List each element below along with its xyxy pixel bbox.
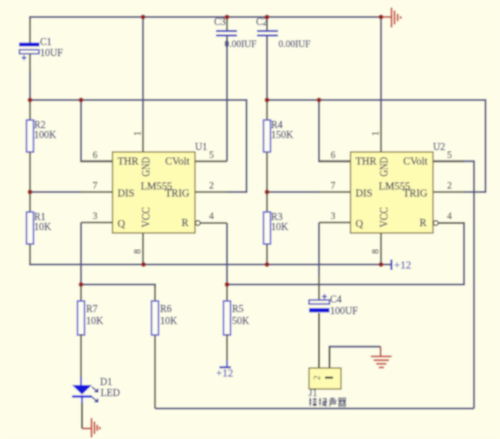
svg-text:7: 7 xyxy=(93,182,98,192)
svg-text:6: 6 xyxy=(93,151,98,161)
svg-text:J1: J1 xyxy=(309,388,318,399)
ground power style top right xyxy=(381,8,401,28)
junction R4 / R3 / DIS2 node xyxy=(265,190,270,195)
junction C2 / top rail xyxy=(265,15,270,20)
resistor R3 xyxy=(264,192,271,265)
svg-text:THR: THR xyxy=(118,157,139,168)
svg-text:VCC: VCC xyxy=(379,207,391,228)
wire THR2 branch xyxy=(319,100,350,161)
wire R6 lead lower xyxy=(154,335,156,409)
svg-text:3: 3 xyxy=(93,212,98,222)
svg-text:C4: C4 xyxy=(330,295,342,306)
wire C2 to node xyxy=(266,37,268,101)
svg-text:4: 4 xyxy=(209,212,214,222)
svg-text:8: 8 xyxy=(372,249,382,254)
op-amp U2 LM555 xyxy=(351,152,434,233)
svg-text:GND: GND xyxy=(379,157,391,177)
svg-text:C3: C3 xyxy=(214,17,226,28)
junction THR1 branch xyxy=(79,98,84,103)
svg-text:D1: D1 xyxy=(100,377,112,388)
junction R5 / reset rail xyxy=(225,282,230,287)
pin 6 U1 xyxy=(81,151,113,161)
pin 7 U1 xyxy=(81,182,113,192)
svg-text:THR: THR xyxy=(356,157,377,168)
wire Q1 node to R6 xyxy=(81,285,155,289)
svg-text:R7: R7 xyxy=(86,304,98,315)
junction U1 pin1 / top rail xyxy=(141,15,146,20)
svg-text:50K: 50K xyxy=(232,316,250,327)
junction R2 / R1 / DIS1 node xyxy=(28,190,33,195)
capacitor C1 xyxy=(19,19,40,72)
svg-text:8: 8 xyxy=(134,249,144,254)
svg-text:TRIG: TRIG xyxy=(403,189,428,200)
pin 2 U2 xyxy=(433,182,464,192)
junction Q1 output node xyxy=(79,282,84,287)
svg-text:CVolt: CVolt xyxy=(403,157,427,168)
resistor R5 xyxy=(224,285,231,361)
svg-text:R: R xyxy=(181,218,188,229)
svg-text:1: 1 xyxy=(372,131,382,136)
svg-text:6: 6 xyxy=(331,151,336,161)
pin 8 U1 xyxy=(134,233,144,265)
svg-text:1: 1 xyxy=(134,131,144,136)
svg-text:5: 5 xyxy=(209,151,214,161)
pin 3 U1 xyxy=(81,212,113,223)
junction C1 / R2 node xyxy=(28,98,33,103)
svg-text:GND: GND xyxy=(141,157,153,177)
pin 1 U1 xyxy=(134,121,144,152)
svg-text:10K: 10K xyxy=(160,316,178,327)
svg-text:3: 3 xyxy=(331,212,336,222)
op-amp U1 LM555 xyxy=(113,152,196,233)
resistor R1 xyxy=(27,192,34,264)
svg-text:TRIG: TRIG xyxy=(165,189,190,200)
diode D1 LED xyxy=(72,377,98,429)
svg-text:CVolt: CVolt xyxy=(165,157,189,168)
svg-text:R: R xyxy=(419,218,426,229)
svg-text:Q: Q xyxy=(356,219,364,230)
pin 3 U2 xyxy=(319,212,351,223)
wire DIS2 branch xyxy=(267,191,319,193)
wire bottom rail R6 to CVolt2 xyxy=(155,408,474,410)
svg-text:C1: C1 xyxy=(40,37,52,48)
connector J1 xyxy=(309,347,341,389)
ground power style below LED xyxy=(82,418,100,438)
wire right rail node THR2/TRIG2 xyxy=(267,100,486,192)
resistor R7 xyxy=(78,285,85,379)
capacitor C3 xyxy=(216,17,237,36)
pin 5 U1 xyxy=(195,151,227,161)
wire U1 pin1 riser xyxy=(142,17,144,121)
svg-text:+12: +12 xyxy=(216,368,233,380)
junction C2 / R4 node xyxy=(265,98,270,103)
svg-text:150K: 150K xyxy=(271,130,294,141)
svg-text:0.00IUF: 0.00IUF xyxy=(225,40,257,50)
resistor R6 xyxy=(152,285,159,335)
wire left rail node THR1/TRIG1 xyxy=(30,100,247,192)
wire DIS1 branch xyxy=(30,191,81,193)
svg-text:2: 2 xyxy=(312,375,322,380)
svg-text:100K: 100K xyxy=(34,130,57,141)
wire C1 top riser xyxy=(29,16,31,20)
svg-text:LED: LED xyxy=(101,388,120,399)
svg-text:R5: R5 xyxy=(232,304,244,315)
svg-text:DIS: DIS xyxy=(118,189,135,200)
svg-text:10K: 10K xyxy=(271,222,289,233)
pin 5 U2 xyxy=(433,151,464,161)
svg-text:DIS: DIS xyxy=(356,189,373,200)
svg-text:R6: R6 xyxy=(160,304,172,315)
svg-text:U2: U2 xyxy=(433,142,445,153)
wire Q1 down xyxy=(80,223,82,285)
pin 6 U2 xyxy=(319,151,351,161)
resistor R4 xyxy=(264,100,271,192)
wire J1 pin2 to ground xyxy=(330,347,381,360)
pin 4 U1 with bubble xyxy=(195,212,227,225)
junction THR2 branch xyxy=(317,98,322,103)
junction ground / top rail xyxy=(379,15,384,20)
svg-text:0.00IUF: 0.00IUF xyxy=(279,40,311,50)
svg-text:VCC: VCC xyxy=(141,207,153,228)
svg-text:2: 2 xyxy=(447,182,452,192)
capacitor C4 xyxy=(309,275,330,368)
wire top ground rail xyxy=(30,16,381,18)
svg-text:10K: 10K xyxy=(34,222,52,233)
svg-text:2: 2 xyxy=(209,182,214,192)
pin 8 U2 xyxy=(372,233,382,265)
svg-text:U1: U1 xyxy=(195,142,207,153)
svg-text:4: 4 xyxy=(447,212,452,222)
pin 1 U2 xyxy=(372,121,382,152)
wire R-pins rail to R5 xyxy=(227,223,464,285)
label speaker chinese 接扬声器 xyxy=(309,397,346,406)
pin 2 U1 xyxy=(195,182,227,192)
wire U2 pin1 riser xyxy=(380,17,382,121)
ground earth style near J1 xyxy=(371,347,392,368)
junction U2 pin8 / +12 rail xyxy=(379,262,384,267)
wire U1 pin4 down xyxy=(226,223,228,285)
wire C1 to node xyxy=(29,71,31,100)
capacitor C2 xyxy=(257,17,278,36)
svg-text:Q: Q xyxy=(118,219,126,230)
wire CVolt2 down xyxy=(433,161,474,408)
power +12 below R5 xyxy=(216,360,233,380)
wire +12 rail xyxy=(30,264,391,265)
wire C3 to CVolt1 xyxy=(226,37,228,162)
svg-text:+12: +12 xyxy=(394,260,411,272)
wire THR1 branch xyxy=(81,100,112,161)
svg-text:100UF: 100UF xyxy=(330,306,358,317)
wire Q2 down to C4 xyxy=(318,223,320,277)
svg-text:7: 7 xyxy=(331,182,336,192)
junction C3 / top rail xyxy=(225,15,230,20)
resistor R2 xyxy=(27,100,34,192)
svg-text:5: 5 xyxy=(447,151,452,161)
pin 7 U2 xyxy=(319,182,351,192)
power +12 right of rail xyxy=(391,260,411,272)
svg-text:10UF: 10UF xyxy=(40,48,63,59)
junction U1 pin8 / +12 rail xyxy=(141,262,146,267)
svg-text:10K: 10K xyxy=(86,316,104,327)
pin 4 U2 with bubble xyxy=(433,212,464,225)
junction R3 / +12 rail xyxy=(265,262,270,267)
